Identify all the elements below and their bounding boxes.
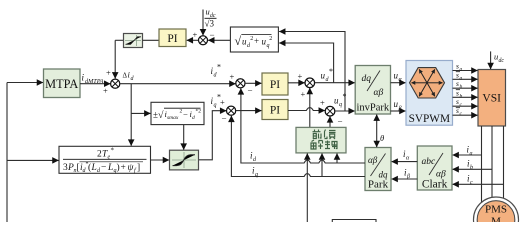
label u_q*	[334, 92, 347, 108]
wire: i_q* path from sat2 up into J4	[199, 111, 227, 160]
svg-text:a: a	[470, 151, 473, 157]
label s_c	[456, 97, 463, 108]
wire: VSI phase b down to PMSM	[491, 126, 493, 198]
svg-text:PI: PI	[270, 105, 280, 117]
wire: theta between invPark and Park (double arrow)	[376, 115, 378, 147]
block PI1 d-axis	[262, 73, 288, 95]
label u_dc (VSI)	[494, 52, 504, 65]
wire: gate signal s_c bar	[453, 114, 478, 116]
wire: omega input up into decoupling (from below image)	[306, 154, 308, 223]
wire: i_d line Park to J2 with hops	[241, 88, 365, 163]
svg-text:*: *	[343, 92, 347, 101]
wire: pm sqrt block down into sat2 (limit input)	[183, 125, 185, 150]
svg-text:αβ: αβ	[374, 88, 384, 98]
svg-text:+: +	[106, 68, 111, 78]
block sqrt(ud^2+uq^2)	[230, 27, 278, 52]
wire: decoupling output up into J5	[329, 116, 331, 127]
block PI2 q-axis	[262, 100, 288, 120]
wire: i_q tap up into decoupling	[321, 154, 323, 177]
svg-text:VSI: VSI	[482, 93, 501, 105]
hanzi qian (front)	[313, 130, 322, 139]
wire: limiter1 to corner	[115, 39, 123, 41]
svg-text:c: c	[460, 111, 463, 117]
junction J5 (uq' - decoupling)	[320, 98, 343, 127]
svg-text:b: b	[460, 93, 463, 99]
svg-text:*: *	[217, 63, 221, 72]
svg-text:β: β	[406, 174, 410, 180]
svg-text:PI: PI	[270, 79, 280, 91]
svg-text:+: +	[121, 163, 126, 173]
svg-text:+: +	[298, 71, 303, 81]
wire: u_alpha invPark to SVPWM	[391, 82, 406, 84]
svg-text:smax: smax	[167, 115, 179, 121]
svg-text:c: c	[470, 180, 473, 186]
label u_dc over sqrt3	[205, 7, 217, 29]
wire: gate signal s_b	[453, 87, 478, 89]
wire: MTPA output to junction J1	[80, 83, 110, 85]
wire: input to torque formula block	[7, 159, 59, 161]
wire: u_q* line J5 to invPark	[335, 110, 355, 112]
label i_b	[467, 159, 473, 172]
label s_c bar	[456, 106, 463, 117]
label u_alpha	[394, 71, 403, 84]
wire: i_a tap into Clark	[453, 154, 482, 156]
label i_a	[467, 145, 473, 158]
hanzi jie (untie)	[311, 140, 323, 149]
svg-text:+: +	[230, 72, 235, 82]
wire: J2 to PI1	[245, 82, 261, 84]
label s_a	[456, 62, 463, 73]
svg-text:*2: *2	[196, 109, 202, 115]
wire: i_d* line J1 to J2	[120, 83, 236, 85]
block limiter (saturation) small	[124, 34, 143, 48]
block speed sensor (cut off at bottom)	[332, 220, 376, 223]
svg-text:Park: Park	[368, 179, 389, 191]
svg-text:d: d	[192, 115, 195, 121]
svg-text:+: +	[103, 86, 108, 96]
wire: u_beta invPark to SVPWM	[391, 110, 406, 112]
svg-text:−: −	[183, 109, 188, 119]
wire: i_beta Clark to Park	[392, 178, 418, 180]
svg-text:α: α	[399, 77, 403, 83]
svg-text:d: d	[214, 73, 218, 79]
wire: gate signal s_a bar	[453, 78, 478, 80]
label s_b bar	[456, 88, 463, 99]
svg-text:−: −	[222, 114, 227, 124]
block VSI	[478, 70, 506, 127]
label i_d*	[211, 63, 222, 79]
block PI field weakening	[159, 29, 186, 47]
wire: i_q line Park to J4 with hop	[231, 116, 365, 177]
svg-text:+: +	[220, 97, 225, 107]
svg-text:PMS: PMS	[485, 204, 507, 216]
svg-text:L: L	[107, 163, 113, 173]
svg-text:invPark: invPark	[356, 103, 389, 114]
wire: VSI phase a down to PMSM	[481, 126, 483, 202]
svg-text:√: √	[235, 34, 242, 48]
wire: decoupling output up into J3	[309, 88, 311, 127]
label i_dMTPA	[82, 73, 104, 86]
svg-text:]: ]	[137, 163, 140, 173]
svg-text:M: M	[491, 216, 501, 223]
svg-text:d: d	[253, 157, 257, 163]
svg-text:MTPA: MTPA	[45, 77, 78, 91]
junction J3 (ud' + decoupling)	[298, 71, 315, 99]
label i_q*	[211, 93, 222, 109]
svg-text:αβ: αβ	[368, 155, 378, 165]
svg-text:−: −	[210, 30, 215, 40]
wire: i_c tap into Clark	[453, 183, 504, 185]
svg-text:2: 2	[269, 36, 272, 42]
svg-text:q: q	[339, 102, 342, 108]
svg-text:b: b	[470, 165, 473, 171]
wire: u_dc into VSI top	[490, 51, 492, 69]
hanzi ou (couple)	[325, 141, 337, 150]
label i_d (measured)	[250, 151, 257, 164]
wire: u_d* feedback (bottom) into sqrt block	[279, 43, 333, 83]
label s_b	[456, 79, 463, 90]
junction J4 (i_q* - i_q)	[220, 97, 236, 124]
wire: PI_fw output to limiter	[143, 39, 160, 41]
label i_q (measured)	[252, 166, 258, 179]
wire: PI2 to J5 with hop over J3 vertical	[288, 108, 325, 111]
svg-text:+: +	[301, 89, 306, 99]
svg-text:dMTPA: dMTPA	[85, 78, 104, 85]
label s_a bar	[456, 71, 463, 82]
wire: i_b tap into Clark	[453, 168, 492, 170]
wire: left input rail vertical	[6, 83, 8, 223]
svg-text:+: +	[254, 36, 259, 46]
wire: gate signal s_b bar	[453, 96, 478, 98]
block invPark	[355, 66, 390, 115]
label i_c	[467, 174, 473, 187]
svg-text:*: *	[329, 67, 333, 76]
label delta i_d	[123, 70, 135, 83]
svg-text:Clark: Clark	[422, 179, 448, 191]
label i_alpha	[403, 149, 410, 162]
wire: gate signal s_a	[453, 70, 478, 72]
hanzi kui (feed)	[324, 130, 335, 140]
hexagon sector diagram	[410, 68, 445, 98]
svg-text:q: q	[255, 172, 258, 178]
svg-text:abc: abc	[422, 157, 437, 167]
wire: input to MTPA	[7, 82, 43, 84]
block Clark	[417, 146, 452, 191]
svg-text:q: q	[267, 43, 270, 49]
svg-text:+: +	[320, 98, 325, 108]
wire: i_alpha Clark to Park	[392, 161, 418, 163]
svg-text:θ: θ	[380, 133, 384, 143]
wire: J4 to PI2	[236, 110, 262, 112]
wire: formula output into sat2	[151, 159, 170, 161]
svg-text:PI: PI	[167, 33, 177, 45]
wire: u_dc/sqrt3 reference down into J0	[202, 10, 204, 36]
block SVPWM	[406, 61, 453, 126]
wire: J0 output into PI_fw	[187, 39, 199, 41]
svg-text:+: +	[193, 30, 198, 40]
wire: u_d* line J3 to invPark	[315, 82, 355, 84]
svg-text:d: d	[131, 76, 135, 82]
svg-text:SVPWM: SVPWM	[409, 113, 450, 125]
svg-text:√3: √3	[205, 19, 215, 29]
svg-text:dq: dq	[362, 74, 372, 84]
wire: u_q* feedback (top) into sqrt block	[279, 32, 345, 112]
junction J2 (i_d* - i_d)	[230, 72, 253, 96]
wire: i_d tap up into decoupling	[336, 154, 338, 164]
svg-text:L: L	[91, 163, 97, 173]
label u_d*	[321, 67, 334, 83]
wire: PI1 to J3	[288, 82, 305, 84]
block pm sqrt limit	[151, 102, 204, 124]
svg-text:−: −	[248, 86, 253, 96]
junction J0 (udc/sqrt3 minus |u|)	[193, 30, 215, 45]
svg-text:2: 2	[250, 36, 253, 42]
block sat2 (dynamic saturation)	[170, 150, 199, 170]
label u_beta	[394, 99, 402, 112]
svg-text:√: √	[158, 110, 164, 121]
svg-text:*: *	[111, 147, 115, 155]
svg-text:−: −	[101, 163, 106, 173]
wire: field-weakening correction down into J1	[114, 40, 116, 78]
wire: VSI phase c down to PMSM	[503, 126, 505, 199]
wire: i_d* tap down to formula block	[130, 84, 132, 146]
junction J1 (i_dMTPA + delta i)	[103, 68, 120, 96]
block feedforward decoupling (qian kui jie ou)	[296, 127, 346, 152]
block torque formula	[59, 146, 151, 174]
svg-text:a: a	[460, 76, 463, 82]
svg-text:): )	[117, 162, 120, 173]
motor PMSM	[474, 197, 519, 240]
svg-text:d: d	[326, 77, 330, 83]
svg-text:q: q	[214, 103, 217, 109]
block Park	[365, 148, 391, 191]
label i_beta	[404, 168, 410, 181]
svg-text:β: β	[398, 106, 402, 112]
wire: i_d* branch into pm-sqrt block	[131, 112, 150, 114]
svg-text:dc: dc	[499, 58, 505, 64]
svg-text:−: −	[338, 117, 343, 127]
svg-text:α: α	[406, 156, 410, 162]
wire: sqrt block output into J0	[208, 39, 230, 41]
block MTPA	[44, 69, 81, 98]
wire: gate signal s_c	[453, 105, 478, 107]
